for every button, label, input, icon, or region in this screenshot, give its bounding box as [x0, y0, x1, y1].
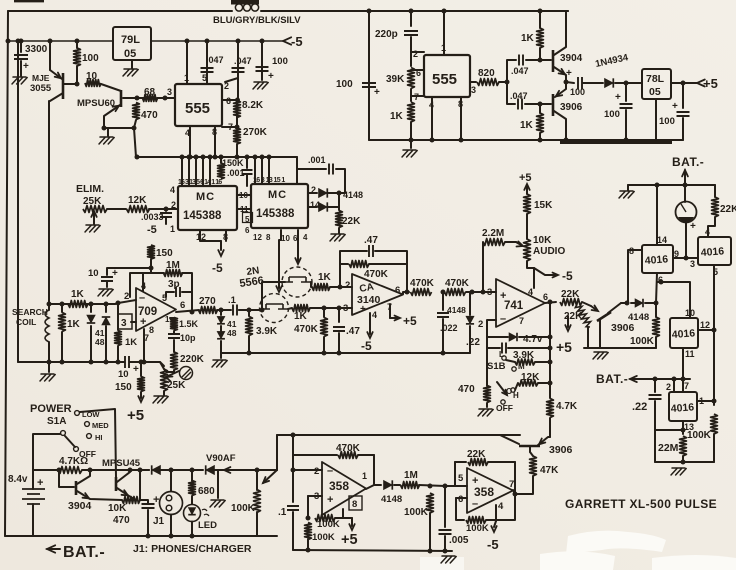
- wire .22b left dn: [654, 430, 656, 462]
- svg-text:100K: 100K: [404, 507, 429, 518]
- wire 270K to bus: [236, 144, 238, 157]
- resistor 22K 358b: [468, 459, 488, 466]
- svg-text:05: 05: [124, 48, 136, 60]
- wire pin6 stub: [411, 69, 424, 71]
- svg-text:5: 5: [458, 473, 464, 484]
- capacitor 100 out: [677, 112, 690, 116]
- wire cap .047a: [206, 41, 208, 84]
- wire 4016c pin12: [698, 329, 714, 331]
- resistor 22M: [680, 436, 687, 456]
- capacitor .005: [439, 530, 452, 534]
- svg-text:100: 100: [272, 56, 288, 67]
- resistor 470K gnd: [321, 318, 328, 337]
- wire pp top: [507, 60, 516, 82]
- svg-text:+: +: [615, 92, 621, 103]
- wire mc2 pin14 wire: [308, 206, 317, 208]
- transistor Q4 collector: [117, 470, 130, 482]
- junction 358a left: [291, 433, 296, 438]
- junction mpsu45 coll: [128, 468, 133, 473]
- svg-text:100K: 100K: [466, 523, 489, 534]
- wire mc2 pin10 drop: [279, 230, 281, 288]
- wire .022: [442, 292, 444, 310]
- wire to preamp box: [277, 434, 520, 436]
- diode D5 41: [217, 316, 225, 323]
- resistor 470K s1: [411, 289, 432, 296]
- svg-text:.001: .001: [308, 155, 326, 165]
- wire hres to pin8: [335, 509, 343, 518]
- svg-text:4: 4: [705, 227, 710, 237]
- switch S1A med contact: [85, 422, 90, 427]
- wire mc2 pin2 wire: [308, 192, 317, 194]
- wire 1K pp bot dn: [539, 104, 541, 113]
- svg-text:4016: 4016: [700, 245, 724, 259]
- svg-text:741: 741: [504, 300, 524, 312]
- wire 39Kb left: [506, 360, 515, 362]
- junction pin3 555a: [163, 96, 168, 101]
- switch S1A arm: [65, 436, 75, 447]
- junction 100 top: [75, 39, 80, 44]
- switch S1A low contact: [75, 411, 80, 416]
- svg-text:22K: 22K: [561, 289, 580, 300]
- transistor Q7 base arrow: [592, 306, 598, 312]
- wire 555a pin8 down: [214, 126, 216, 157]
- pot 100K volume: [254, 490, 261, 513]
- junction pin3 h: [306, 516, 311, 521]
- wire chain c: [410, 122, 412, 140]
- svg-text:+: +: [566, 68, 572, 79]
- wire 10K to rail: [139, 470, 141, 500]
- ground MPSU60: [99, 137, 114, 144]
- junction .47b: [337, 306, 342, 311]
- pot 25K wiper arrow: [91, 211, 96, 217]
- svg-text:COIL: COIL: [16, 317, 36, 327]
- wire mc1 pin8 stub: [225, 230, 227, 241]
- wire bus drop mc2 269: [268, 157, 270, 184]
- junction bus mc2 269: [267, 155, 272, 160]
- diode D13 1N4934: [605, 78, 614, 87]
- wire .1 to jfet: [239, 309, 262, 311]
- ground 79L05: [123, 69, 138, 76]
- junction cap470: [146, 534, 151, 539]
- wire MJE collector: [49, 41, 51, 70]
- capacitor 10uF 709: [101, 277, 113, 281]
- svg-text:3: 3: [121, 318, 127, 329]
- transistor Q10 emitter arrow: [556, 91, 562, 97]
- junction 470 top: [135, 96, 140, 101]
- svg-text:1K: 1K: [318, 272, 332, 283]
- capacitor .0033: [160, 213, 172, 217]
- wire zener right: [519, 336, 550, 338]
- wire 4016a out: [673, 257, 698, 259]
- svg-text:6: 6: [543, 292, 548, 302]
- svg-text:-5: -5: [212, 261, 223, 275]
- svg-text:-5: -5: [147, 224, 157, 236]
- svg-text:1M: 1M: [404, 470, 418, 481]
- wire jfet1 in: [239, 309, 262, 311]
- resistor 22K out2: [575, 304, 590, 327]
- wire 10K to cap: [140, 500, 148, 503]
- wire MJE emitter down to coil rail: [48, 101, 50, 304]
- resistor 1K series: [68, 301, 88, 308]
- pot 10K audio: [524, 239, 531, 261]
- ic U4 MC14538B: [178, 186, 237, 230]
- wire d9 dn: [469, 326, 471, 353]
- wire q8 base: [500, 435, 519, 444]
- svg-text:150K: 150K: [222, 158, 244, 168]
- wire -5 arrow mc1: [220, 241, 222, 250]
- junction 22M bot: [681, 460, 686, 465]
- svg-text:4016: 4016: [670, 401, 694, 415]
- junction 2.2M tap: [481, 290, 486, 295]
- wire 8.2K to 270K: [236, 100, 238, 127]
- wire 4016b pin5: [713, 265, 715, 330]
- svg-text:820: 820: [478, 68, 495, 79]
- svg-text:358: 358: [329, 479, 349, 493]
- led arrows: [202, 509, 209, 516]
- svg-text:10K: 10K: [108, 503, 127, 514]
- resistor 1K j1: [292, 305, 310, 312]
- wire 150 to node: [150, 259, 152, 268]
- wire bus drop 182: [181, 157, 183, 186]
- wire 555b out: [470, 81, 476, 83]
- wire 358b top: [455, 461, 466, 463]
- wire 1K j1 to pin3: [310, 307, 352, 309]
- wire .47b dn: [338, 333, 340, 353]
- junction 22M top: [681, 428, 686, 433]
- junction meter rail2: [655, 183, 660, 188]
- wire 22K meter dn: [708, 217, 715, 237]
- junction d41 bot: [89, 360, 94, 365]
- wire +5 arr: [351, 518, 353, 526]
- arrow -5 3140: [367, 332, 372, 338]
- resistor 270K: [234, 128, 241, 144]
- svg-text:3.9K: 3.9K: [513, 350, 535, 361]
- svg-text:1K: 1K: [520, 120, 534, 131]
- wire chg gnd: [410, 140, 412, 148]
- ic U10 4016 b: [698, 237, 731, 265]
- wire left border: [5, 11, 8, 536]
- wire chain a: [410, 37, 412, 66]
- arrow bat- top: [682, 170, 688, 176]
- wire 270 to d: [217, 309, 231, 311]
- svg-text:+: +: [112, 268, 118, 279]
- wire 1K pp top dn: [539, 48, 541, 60]
- svg-text:2: 2: [666, 382, 671, 392]
- wire 358b pin4: [495, 505, 497, 521]
- wire 12K to pin2: [149, 208, 178, 210]
- wire d48 dn: [105, 326, 107, 362]
- svg-text:-5: -5: [562, 269, 573, 283]
- junction 1K pp bot: [538, 138, 543, 143]
- svg-text:+5: +5: [341, 532, 358, 548]
- ic U5 MC14538B second: [251, 184, 308, 228]
- junction charger tl: [367, 9, 372, 14]
- svg-text:22M: 22M: [658, 442, 679, 454]
- svg-text:BAT.-: BAT.-: [672, 155, 704, 169]
- junction 555a pin1 rail: [185, 39, 190, 44]
- junction grail 249: [247, 351, 252, 356]
- svg-text:12: 12: [700, 320, 710, 330]
- svg-text:4016: 4016: [671, 327, 695, 341]
- wire 709 pin3 shunt: [117, 303, 119, 330]
- junction bus 189: [187, 155, 192, 160]
- wire 100K comp dn: [655, 337, 657, 348]
- transistor Q9 emitter: [554, 67, 566, 82]
- resistor 470: [133, 103, 140, 120]
- svg-text:3904: 3904: [68, 500, 92, 512]
- svg-text:ELIM.: ELIM.: [76, 183, 104, 195]
- wire elim gnd: [93, 222, 95, 224]
- pot 25K: [161, 369, 168, 391]
- wire -5 358b: [494, 521, 496, 527]
- wire 150b dn: [140, 392, 142, 398]
- jfet Q6 2N5566b: [285, 277, 311, 282]
- svg-text:5: 5: [202, 73, 207, 83]
- junction meter rail: [683, 183, 688, 188]
- junction .022 rail: [441, 351, 446, 356]
- svg-text:6: 6: [245, 226, 250, 235]
- wire 358a bottom rail: [293, 550, 452, 551]
- wire bus drop 196: [195, 157, 197, 186]
- junction zener node: [548, 335, 553, 340]
- wire 3140 fb top right: [375, 251, 407, 292]
- resistor 12K: [127, 206, 150, 213]
- wire 4016a pin6 dn: [656, 273, 657, 303]
- svg-text:470: 470: [113, 515, 130, 526]
- svg-text:2: 2: [478, 319, 483, 330]
- transistor Q8 collector: [529, 447, 531, 452]
- switch S1B arm: [497, 382, 507, 395]
- wire .001a dn: [246, 175, 248, 186]
- resistor 22K out1: [560, 299, 582, 306]
- resistor 3.9K a: [246, 317, 253, 336]
- junction bat 655: [653, 377, 658, 382]
- svg-text:3p: 3p: [168, 279, 180, 290]
- wire 358a left dn: [292, 512, 294, 550]
- arrow +5 out: [697, 80, 705, 87]
- resistor 150K: [218, 163, 225, 179]
- capacitor 3p: [176, 287, 180, 297]
- diode D7 series: [152, 465, 161, 474]
- wire j1: [170, 470, 172, 491]
- junction 555b pin4: [430, 138, 435, 143]
- wire bat- stub: [47, 548, 60, 550]
- wire 22K mc gnd: [338, 228, 340, 233]
- svg-text:150: 150: [115, 382, 132, 393]
- wire 22K meter top: [714, 185, 716, 197]
- capacitor 100 a: [256, 67, 269, 71]
- pin5 box: [243, 213, 253, 223]
- junction 1K bot: [538, 102, 543, 107]
- arrow charger in: [224, 467, 230, 473]
- wire 358b left: [454, 462, 456, 486]
- arrow +5 358a: [349, 524, 354, 530]
- resistor 820: [477, 79, 499, 86]
- junction bus pin8: [213, 155, 218, 160]
- svg-text:100: 100: [659, 116, 675, 127]
- arrow jfet2 gate: [295, 258, 300, 264]
- junction bus mc2 255: [253, 155, 258, 160]
- svg-text:+: +: [374, 87, 380, 98]
- resistor 4.7K det: [547, 399, 554, 418]
- junction 470Kb: [322, 306, 327, 311]
- transistor Q8 3906 bar: [519, 445, 540, 448]
- capacitor .047 c: [519, 55, 523, 66]
- wire mc1 pin10 link: [237, 194, 251, 196]
- wire .22b dn: [655, 401, 683, 430]
- junction d48 bot: [104, 360, 109, 365]
- wire left inner rail: [17, 41, 19, 362]
- resistor 10K power: [122, 497, 140, 504]
- wire 1K709 dn: [117, 346, 119, 362]
- junction 1Kv top: [60, 302, 65, 307]
- svg-text:8: 8: [352, 499, 357, 510]
- svg-text:3.9K: 3.9K: [256, 326, 278, 337]
- wire mc2 pin6 drop: [297, 230, 299, 261]
- op-amp U6 709: [136, 288, 176, 331]
- wire 470Kb dn: [323, 337, 325, 353]
- jack J1 body: [160, 492, 183, 515]
- junction emitter rail a: [102, 126, 107, 131]
- svg-text:79L: 79L: [121, 34, 140, 46]
- wire comp2: [173, 331, 175, 333]
- resistor 1K j2: [312, 284, 330, 291]
- svg-text:7: 7: [144, 333, 149, 343]
- svg-text:.047: .047: [511, 66, 529, 76]
- svg-text:MC: MC: [196, 191, 215, 203]
- arrow bat- mid: [630, 376, 637, 382]
- wire d2 to node: [328, 206, 339, 208]
- transistor Q1 MJE3055 collector diag: [50, 70, 62, 79]
- wire mc2 pin1 up: [297, 169, 326, 184]
- wire 3p stub: [166, 292, 174, 297]
- coil L1 shield bar: [231, 0, 259, 5]
- diode D1 4148: [319, 188, 328, 197]
- svg-text:470K: 470K: [410, 278, 435, 289]
- wire 555a pin7: [222, 126, 237, 128]
- junction 270 d: [219, 308, 224, 313]
- svg-text:4: 4: [528, 287, 533, 297]
- svg-text:2: 2: [345, 280, 350, 291]
- wire 1Kv: [61, 304, 63, 312]
- resistor 39K: [408, 68, 415, 89]
- wire 709 pin4 drop: [142, 273, 144, 291]
- svg-text:47K: 47K: [540, 465, 559, 476]
- resistor 220K: [171, 352, 178, 370]
- junction cap470 rail: [138, 468, 143, 473]
- svg-text:4.7KΩ: 4.7KΩ: [59, 456, 88, 467]
- wire 741 pin3 up: [482, 242, 484, 292]
- ground coil: [40, 374, 55, 381]
- wire 78L05 out: [671, 82, 697, 84]
- junction 39K: [247, 308, 252, 313]
- wire cap470 dn: [147, 510, 149, 536]
- svg-text:-5: -5: [361, 339, 372, 353]
- junction 358b out: [513, 492, 518, 497]
- ground meter rail: [619, 191, 634, 198]
- wire pot top: [256, 470, 258, 490]
- wire bus drop mc2 255: [254, 157, 256, 184]
- wire 4016a pin8: [628, 250, 642, 303]
- svg-text:+: +: [672, 101, 678, 112]
- transistor Q9 emitter arrow: [559, 69, 565, 75]
- junction 1K top: [538, 58, 543, 63]
- svg-text:.1: .1: [228, 295, 237, 306]
- pot wiper arrow: [263, 477, 269, 483]
- svg-text:S1A: S1A: [47, 416, 66, 427]
- resistor 100K comp: [653, 317, 660, 337]
- wire 555b pin1: [443, 11, 445, 55]
- wire j1 out: [288, 308, 292, 309]
- wire j2 out: [311, 282, 312, 287]
- wire .0033 cap: [165, 209, 167, 211]
- wire emitter rail: [104, 127, 134, 129]
- wire rail469: [33, 469, 57, 471]
- ground v90: [210, 500, 225, 507]
- op-amp U8 741: [496, 279, 545, 327]
- resistor 25K elim: [83, 206, 107, 213]
- wire 358a pin2: [293, 469, 322, 471]
- wire 358a out: [366, 485, 381, 489]
- wire q7 e to node: [621, 302, 628, 304]
- svg-text:470K: 470K: [364, 269, 389, 280]
- wire charger box bottom thick: [560, 139, 672, 144]
- wire charger bottom: [369, 139, 683, 141]
- capacitor .001 a: [242, 170, 253, 174]
- svg-text:470K: 470K: [336, 443, 361, 454]
- junction 3300: [19, 39, 24, 44]
- wire 39Kb right: [535, 361, 550, 363]
- wire 555a pin6: [222, 99, 237, 101]
- capacitor .47 gnd: [333, 327, 345, 331]
- wire coil gnd stub: [48, 362, 50, 372]
- svg-text:BAT.-: BAT.-: [596, 372, 628, 386]
- svg-text:+5: +5: [519, 172, 532, 184]
- capacitor .022: [437, 313, 449, 317]
- wire +5 det: [567, 316, 569, 327]
- wire 39K dn: [248, 336, 250, 353]
- junction emitter rail b: [132, 126, 137, 131]
- transistor Q4 emitter: [117, 488, 136, 500]
- svg-text:3: 3: [471, 85, 476, 95]
- svg-text:680: 680: [198, 486, 215, 497]
- svg-text:MJE: MJE: [32, 73, 50, 83]
- wire +5 358a: [343, 517, 352, 519]
- wire led dn: [191, 522, 193, 537]
- wire .22b: [654, 379, 656, 392]
- regulator U2 79L05: [113, 27, 151, 60]
- svg-text:3906: 3906: [560, 102, 583, 113]
- wire bus drop 210: [209, 157, 211, 186]
- junction bus 470: [135, 155, 140, 160]
- ground elim: [85, 225, 100, 232]
- junction pot top: [255, 468, 260, 473]
- wire 741 pin2: [487, 320, 496, 337]
- wire 4016c pin11: [682, 348, 684, 379]
- svg-text:1: 1: [170, 224, 175, 234]
- svg-text:2: 2: [413, 49, 418, 59]
- switch S1B OFF contact: [501, 400, 505, 404]
- capacitor 100 chgb: [620, 104, 633, 108]
- svg-text:220p: 220p: [375, 29, 398, 40]
- coil L1 cable: [235, 4, 242, 11]
- artifact top-left mark: [14, 0, 44, 2]
- wire .022 dn: [442, 319, 444, 353]
- svg-text:.1: .1: [278, 507, 287, 518]
- wire supply rail -V top: [8, 40, 113, 42]
- resistor 1M b: [401, 482, 420, 489]
- wire clamp2b: [220, 326, 222, 331]
